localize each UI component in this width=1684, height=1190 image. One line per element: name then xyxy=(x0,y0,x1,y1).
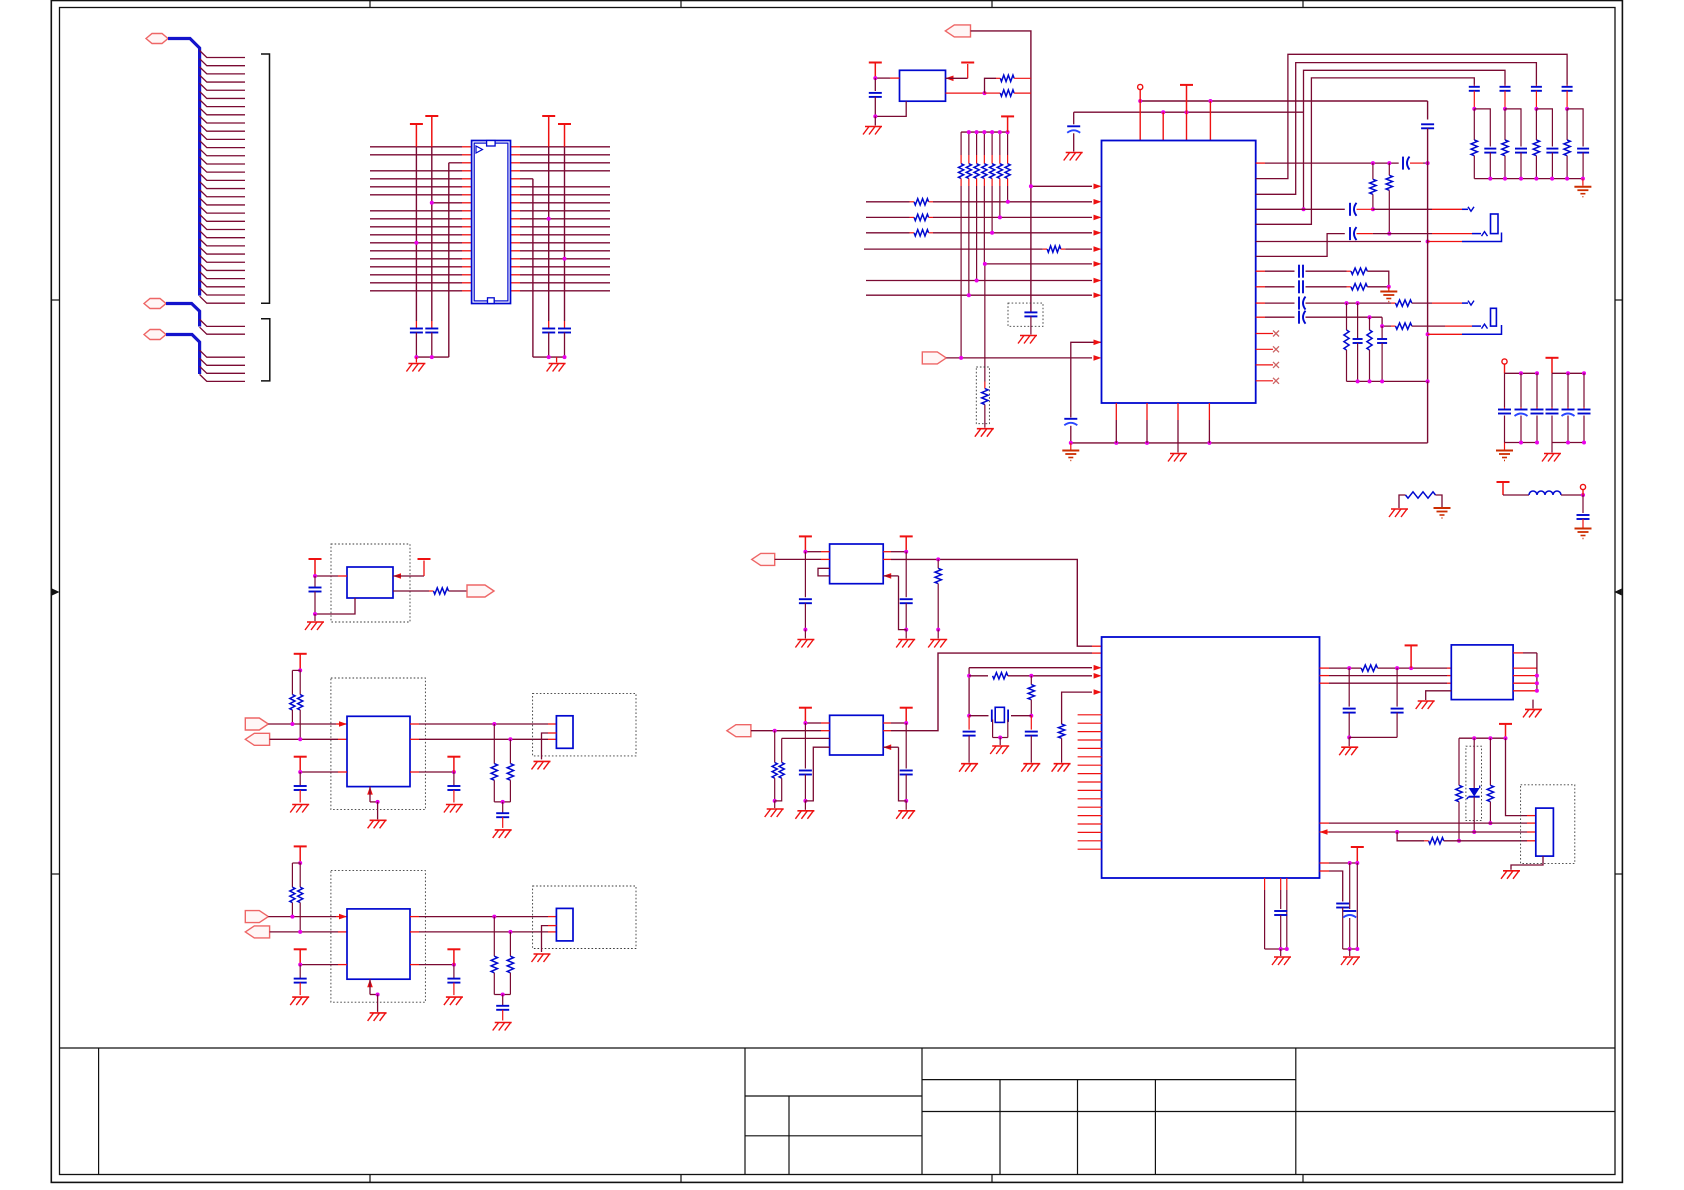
wire out G1 xyxy=(883,559,1092,646)
wire row hp1 xyxy=(1256,270,1295,272)
wires U1 left side xyxy=(370,147,472,291)
resistor R15 xyxy=(1396,323,1482,329)
resistor R4 xyxy=(985,90,1031,96)
wire out2 E2 xyxy=(410,930,556,934)
power VCC T10 xyxy=(1497,482,1510,495)
resistor R5 in dashed box xyxy=(976,367,989,428)
jack J3 tip xyxy=(1468,301,1474,306)
capacitor C22 xyxy=(1391,668,1404,737)
wire row net2 with resistor R6 xyxy=(866,199,1102,205)
resistor R21 xyxy=(1052,689,1102,771)
input port E2 xyxy=(245,911,268,923)
wire pin1 G2 xyxy=(803,721,829,725)
wire pin4r G2 xyxy=(883,744,906,801)
capacitor right E2 xyxy=(447,965,460,996)
resistor R14 xyxy=(1396,300,1469,306)
ground GND21 xyxy=(1523,709,1542,717)
capacitor C25 xyxy=(1343,911,1356,949)
ground GND7 xyxy=(1380,287,1397,302)
power VCC T E1 xyxy=(294,654,307,671)
output port E2 xyxy=(245,926,269,938)
power VCC T15 xyxy=(1351,847,1364,863)
ground R G1 xyxy=(896,630,915,648)
wire vcc capr G1 xyxy=(905,552,907,598)
power VCC T5 xyxy=(869,63,882,79)
resistor R19 xyxy=(969,673,1102,679)
wire codec bottom bar xyxy=(1069,381,1428,445)
codec top pins xyxy=(1140,101,1210,141)
wire row sleeve2 xyxy=(1426,325,1502,336)
capacitor C24 xyxy=(1336,904,1349,950)
wire u6 outs xyxy=(1513,653,1539,693)
connector gnd wire E2 xyxy=(542,926,557,952)
capacitor C11 xyxy=(1350,227,1481,240)
output port P6 xyxy=(467,585,494,597)
codec bottom pins xyxy=(1116,403,1209,443)
wire vcc capr G2 xyxy=(905,723,907,769)
wire row net7 xyxy=(866,278,1102,284)
wire vertical left2 xyxy=(430,147,434,321)
wire net10 corner xyxy=(1071,340,1102,418)
power VCC T12 xyxy=(418,558,431,560)
wire right pin3 E1 xyxy=(410,770,456,774)
wire gnd bar left xyxy=(414,355,448,359)
wire out E2 xyxy=(270,930,347,934)
wires U5 bottom left group xyxy=(1265,878,1287,949)
wire vertical right1 xyxy=(532,179,534,357)
bus branch wires group2 xyxy=(200,319,245,334)
wire pin1r G2 xyxy=(883,721,908,725)
wire vcc vertical xyxy=(874,78,876,91)
power VCC T3 E1 xyxy=(447,757,460,772)
wire out1 E2 xyxy=(410,915,556,919)
resistor R3 xyxy=(996,75,1031,81)
wire vertical right3 xyxy=(563,147,567,321)
capacitor out E1 xyxy=(496,802,509,828)
wire bundle row3 xyxy=(1302,70,1506,211)
resistor R17 xyxy=(434,588,468,594)
capacitor C10 xyxy=(1350,203,1468,216)
wire U2 right pin2 xyxy=(946,91,987,95)
capacitor C17 xyxy=(1577,495,1590,528)
connector dashed box E2 xyxy=(533,886,636,949)
wire row out1 xyxy=(1256,161,1399,165)
capacitor C3 xyxy=(542,321,555,357)
power VCC T3 E2 xyxy=(447,949,460,964)
capacitor C6 in dashed box xyxy=(1008,303,1043,334)
resistor R12 xyxy=(1351,268,1389,287)
power VCC TR G1 xyxy=(900,536,913,551)
wire U4 left pin xyxy=(313,574,347,578)
regulator box E2 xyxy=(347,909,410,979)
wire G1 into IC2 xyxy=(936,557,1101,646)
ground bottom E2 xyxy=(368,1013,387,1021)
power VCC T3 xyxy=(542,116,555,147)
ground GND10 xyxy=(1574,179,1591,197)
title block xyxy=(60,1048,1616,1175)
box G2 xyxy=(830,715,884,755)
wire u5 row1 to connector xyxy=(1320,822,1536,824)
resistor R13 xyxy=(1351,284,1391,290)
resistor pair E2 xyxy=(290,861,303,932)
ground GND6 xyxy=(1064,153,1083,161)
diode D1 dashed box xyxy=(1466,746,1482,820)
wire U2 bottom xyxy=(873,101,906,118)
wire out2 E1 xyxy=(410,737,556,741)
resistor pack RP1 xyxy=(959,130,1011,178)
wire vertical right2 xyxy=(547,147,551,321)
wire row net1 xyxy=(1029,184,1102,190)
wire row hp2 xyxy=(1256,286,1295,288)
wire vcc to connector xyxy=(1506,738,1536,815)
ground out E2 xyxy=(493,1023,512,1031)
filter network RC xyxy=(1344,303,1387,381)
capacitor C23 xyxy=(1274,911,1287,949)
ground GND9 xyxy=(1168,443,1187,462)
wire U4 bottom xyxy=(313,598,355,616)
capacitor L G1 xyxy=(799,599,812,631)
crystal case ground xyxy=(990,720,1009,755)
ground L G2 xyxy=(795,801,814,819)
connector ground E1 xyxy=(532,761,551,769)
crystal Y1 xyxy=(969,707,1031,722)
wire rail down xyxy=(1030,68,1032,312)
wire vertical left3 xyxy=(448,163,450,357)
wire u5 out1 xyxy=(1320,666,1362,670)
dashed box U4 xyxy=(331,544,410,622)
connector dashed box E1 xyxy=(533,693,636,756)
bus branch wires group1 xyxy=(200,51,245,304)
capacitor R G1 xyxy=(900,599,913,631)
power circle PWR3 xyxy=(1580,484,1585,495)
wire out E1 xyxy=(270,737,347,741)
border zone ticks top xyxy=(370,1,1303,8)
jack J2 ring xyxy=(1482,232,1488,237)
capacitor C13 xyxy=(1299,265,1351,278)
wire u5 row2 to connector xyxy=(1320,829,1536,835)
connector CN1 dashed box xyxy=(1521,785,1575,864)
ground GND17 xyxy=(928,630,947,648)
connector CN1 xyxy=(1536,808,1554,856)
jack J2 sleeve xyxy=(1491,214,1499,234)
resistor out1 E2 xyxy=(491,917,497,995)
ground GND3 xyxy=(863,116,882,134)
power circle PWR2 xyxy=(1502,359,1507,373)
wire rc bar E2 xyxy=(494,993,510,997)
ground GND5 xyxy=(1018,336,1037,344)
regulator U4 xyxy=(347,567,393,598)
output port E1 xyxy=(245,733,269,745)
dashed box E1 xyxy=(331,678,426,810)
power VCC T2 xyxy=(410,124,423,147)
wire u6 gnd left xyxy=(1426,691,1452,700)
dashed box E2 xyxy=(331,871,426,1003)
wire u6 gnd right xyxy=(1532,700,1534,709)
wire vcc cap G1 xyxy=(804,552,806,598)
bracket bus group1 xyxy=(261,54,270,303)
ground out E1 xyxy=(493,830,512,838)
ground right E1 xyxy=(444,805,463,813)
wire jog G1 xyxy=(818,568,830,576)
power port P3 xyxy=(144,330,166,340)
power VCC T8 xyxy=(1180,85,1193,112)
wire out1 E1 xyxy=(410,722,556,726)
power port P4 xyxy=(945,25,970,37)
ground right E2 xyxy=(444,997,463,1005)
wire row net9 xyxy=(946,355,1101,361)
regulator U2 xyxy=(900,70,946,101)
wires U5 bottom right group xyxy=(1320,861,1360,949)
wire bundle row1 xyxy=(1256,54,1567,178)
wire pulldown branch xyxy=(984,264,986,382)
ground GND2 xyxy=(547,357,566,371)
power port P5 xyxy=(922,352,946,364)
bus wire 3 xyxy=(166,335,200,375)
input port G1 xyxy=(752,553,775,565)
ground GND23 xyxy=(1272,949,1291,965)
wires U1 right side xyxy=(511,147,611,291)
capacitor C15 xyxy=(1299,297,1396,310)
ground left E2 xyxy=(290,997,309,1005)
power VCC T E2 xyxy=(294,846,307,863)
wire G2 pin4 xyxy=(805,747,829,801)
resistor R25 xyxy=(1424,838,1536,844)
wire pin1r G1 xyxy=(883,550,908,554)
wire codec top rail1 xyxy=(1138,99,1427,103)
connector ground E2 xyxy=(532,954,551,962)
codec IC U3 xyxy=(1102,141,1256,404)
power VCC T9 xyxy=(1546,358,1559,374)
wire bundle row2 xyxy=(1256,63,1537,195)
resistor R24 xyxy=(1487,738,1493,825)
wire row net8 xyxy=(866,292,1102,298)
wire U4 out2 xyxy=(393,590,434,592)
power VCC TL G2 xyxy=(799,708,812,723)
power VCC T2 E1 xyxy=(294,757,307,772)
bus wire 2 xyxy=(166,304,200,327)
resistor pair E1 xyxy=(290,668,303,739)
ground GND13 xyxy=(1389,509,1408,517)
capacitor C5 xyxy=(869,93,882,117)
wire row out2 to jack xyxy=(1256,208,1345,210)
bracket bus group2 xyxy=(261,319,270,381)
ground GND20 xyxy=(1416,701,1435,709)
wire pin4r G1 xyxy=(883,573,906,630)
wire rc bar E1 xyxy=(494,800,510,804)
capacitor C2 xyxy=(425,321,438,357)
wire U2 left pin xyxy=(873,76,899,80)
jack J3 sleeve xyxy=(1491,308,1497,326)
wire vertical left1 xyxy=(414,147,418,321)
resistor R10 hanging xyxy=(1370,163,1376,211)
wire G2 into IC2 xyxy=(1092,652,1102,654)
ground GND22 xyxy=(1501,871,1520,879)
power VCC T14 xyxy=(1499,724,1512,738)
ground GND15 xyxy=(1575,529,1592,539)
resistor R11 hanging xyxy=(1386,163,1392,236)
wire U2 right pin1 xyxy=(946,64,968,81)
capacitor C12 xyxy=(1421,124,1434,381)
capacitor out E2 xyxy=(496,995,509,1021)
diode D1 xyxy=(1467,738,1480,834)
inductor L1 xyxy=(1503,491,1585,497)
ground L G1 xyxy=(795,630,814,648)
input port G2 xyxy=(727,725,751,737)
capacitor C4 xyxy=(558,321,571,357)
wire row out3 to jack xyxy=(1256,234,1345,257)
ground R G2 xyxy=(896,801,915,819)
ground GND12 xyxy=(1542,443,1561,462)
bus branch wires group3 xyxy=(200,350,245,381)
capacitor L G2 xyxy=(799,771,812,803)
wire port G2 xyxy=(751,730,830,732)
power VCC T4 xyxy=(558,124,571,147)
capacitor C8 xyxy=(1067,126,1080,151)
capacitor right E1 xyxy=(447,772,460,803)
wire left pin3 E1 xyxy=(298,770,347,774)
ground GND24 xyxy=(1341,949,1360,965)
bottom pin E1 xyxy=(367,787,379,820)
wire codec top rail2 xyxy=(1074,110,1304,114)
border zone ticks bottom xyxy=(370,1175,1303,1183)
bottom pin E2 xyxy=(367,979,379,1012)
wire pin1 G1 xyxy=(803,550,829,554)
ground GND19 xyxy=(1339,737,1358,755)
power VCC T1 xyxy=(425,116,438,147)
wire u5 out2 xyxy=(1320,675,1452,677)
ground GND11 xyxy=(1496,443,1513,461)
wire bar bottom left xyxy=(1265,947,1289,951)
resistor R18 hanging xyxy=(935,559,941,631)
wire R3 link xyxy=(985,78,997,93)
capacitor C7 xyxy=(1064,419,1077,443)
wires RP1 tails xyxy=(961,179,1008,358)
capacitor C21 xyxy=(1343,668,1356,739)
capacitor C18 xyxy=(309,576,322,614)
power VCC T13 xyxy=(1405,645,1418,668)
cap bank A xyxy=(1498,371,1544,444)
connector E1 xyxy=(556,716,573,749)
wire diode bar xyxy=(1459,736,1508,740)
wire u6 top out xyxy=(1513,652,1537,654)
power VCC T6 xyxy=(961,62,974,64)
wire branch resistor xyxy=(1397,832,1424,841)
power port P1 xyxy=(146,34,168,44)
resistor R20 xyxy=(1028,676,1034,718)
border zone ticks right xyxy=(1614,300,1622,874)
cap bank B xyxy=(1546,371,1591,444)
capacitor C20 xyxy=(1021,716,1040,772)
connector J1 body xyxy=(472,141,511,304)
wire row sleeve1 xyxy=(1256,233,1502,244)
bus wire xyxy=(168,39,200,296)
jack J2 tip xyxy=(1468,207,1474,212)
wire cap branch xyxy=(1073,112,1075,124)
wire in E2 xyxy=(268,914,347,920)
wire row net5 with resistor R9 xyxy=(864,246,1102,252)
resistor R23 xyxy=(1456,738,1462,843)
box G1 xyxy=(830,544,884,584)
capacitor left E1 xyxy=(294,772,307,803)
wire row hp4 xyxy=(1256,316,1295,318)
ground GND14 xyxy=(1434,508,1451,518)
capacitor C14 xyxy=(1299,280,1351,293)
wire left pin3 E2 xyxy=(298,963,347,967)
resistor out2 E1 xyxy=(507,739,513,802)
wire row net4 with resistor R8 xyxy=(866,230,1102,236)
IC U5 left pin comb xyxy=(1078,715,1102,849)
capacitor left E2 xyxy=(294,965,307,996)
jack J3 ring xyxy=(1482,324,1488,329)
ground GND18 xyxy=(765,801,784,817)
capacitor C16 xyxy=(1299,311,1382,324)
ground GND1 xyxy=(406,357,425,371)
power port P2 xyxy=(144,299,166,309)
no-connect stubs xyxy=(1256,331,1279,384)
resistor out1 E1 xyxy=(491,724,497,802)
wire row net3 with resistor R7 xyxy=(866,214,1102,220)
wire port to rail xyxy=(971,31,1031,68)
wire rail vertical right xyxy=(1427,101,1429,120)
power VCC T2 E2 xyxy=(294,949,307,964)
ground GND8 xyxy=(1062,443,1079,461)
capacitor C19 xyxy=(959,716,978,772)
input port E1 xyxy=(245,718,268,730)
decoupling caps bank xyxy=(1469,85,1589,179)
wire u5 out3 xyxy=(1320,682,1452,684)
border zone ticks left xyxy=(51,300,59,874)
wire in E1 xyxy=(268,721,347,727)
capacitor C9 xyxy=(1403,157,1430,170)
wire bundle row4 xyxy=(1256,78,1475,224)
wire row net6 xyxy=(983,261,1102,267)
power circle PWR1 xyxy=(1138,84,1143,101)
wire bar bottom right xyxy=(1343,947,1360,951)
wire right pin3 E2 xyxy=(410,963,456,967)
power VCC TR G2 xyxy=(900,708,913,723)
wire hp4 corner xyxy=(1380,317,1395,328)
wire network gnd bar xyxy=(1347,379,1430,383)
ground left E1 xyxy=(290,805,309,813)
ground bottom E1 xyxy=(368,820,387,828)
capacitor R G2 xyxy=(900,771,913,803)
wire gnd bar right xyxy=(533,355,567,359)
wire port G1 xyxy=(775,558,830,560)
wire out G2 xyxy=(883,653,1092,731)
power VCC T7 xyxy=(1001,116,1014,132)
regulator box E1 xyxy=(347,716,410,786)
wire row hp3 xyxy=(1256,302,1295,304)
connector gnd wire E1 xyxy=(542,733,557,759)
wire CN1 gnd xyxy=(1511,856,1543,870)
resistor pair G2 xyxy=(772,729,830,803)
wire vcc cap G2 xyxy=(804,723,806,769)
ground GND4 xyxy=(975,429,994,437)
power VCC TL G1 xyxy=(799,536,812,551)
wire U4 out1 xyxy=(393,561,424,579)
resistor R16 between grounds xyxy=(1399,492,1442,508)
IC U5 xyxy=(1102,637,1320,878)
capacitor C1 xyxy=(410,321,423,357)
wire caps bank gnd bar xyxy=(1474,177,1585,181)
ground GND16 xyxy=(305,614,324,630)
IC U6 xyxy=(1451,645,1513,700)
resistor R22 xyxy=(1361,665,1451,671)
resistor out2 E2 xyxy=(507,932,513,995)
power VCC T11 xyxy=(309,559,322,576)
wire xtal net1 xyxy=(967,665,1102,718)
connector E2 xyxy=(556,908,573,941)
